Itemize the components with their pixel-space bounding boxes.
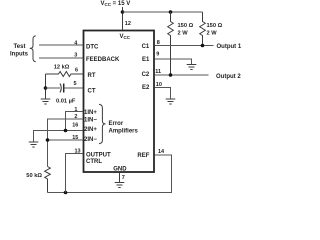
svg-text:E1: E1: [142, 57, 150, 63]
junction dot pin13 to REF wire: [64, 191, 68, 195]
svg-text:150 Ω: 150 Ω: [178, 23, 194, 29]
junction dot pin1 to pin16: [64, 129, 68, 133]
wire pin 11 C2 output 2: [155, 74, 209, 76]
svg-text:Inputs: Inputs: [10, 51, 29, 57]
svg-text:2IN+: 2IN+: [84, 127, 97, 133]
svg-text:REF: REF: [137, 153, 149, 159]
junction dot R1 bottom: [169, 73, 173, 77]
capacitor CT 0.01uF straight plate: [63, 84, 65, 93]
resistor R1 150 ohm 2W: [168, 12, 174, 75]
svg-text:2IN−: 2IN−: [84, 137, 97, 143]
svg-text:7: 7: [122, 175, 125, 181]
svg-text:2 W: 2 W: [178, 31, 189, 37]
wire pin 8 C1 output 1: [155, 45, 214, 47]
resistor R3 50k: [45, 167, 51, 193]
svg-text:DTC: DTC: [86, 45, 99, 51]
svg-text:OUTPUT: OUTPUT: [86, 152, 111, 158]
svg-text:5: 5: [74, 81, 77, 87]
junction dot pin2 to pin15: [46, 138, 50, 142]
svg-text:0.01 µF: 0.01 µF: [56, 99, 76, 105]
junction dot CT node: [44, 86, 48, 90]
svg-text:10: 10: [156, 82, 162, 88]
ground E1: [187, 65, 197, 70]
brace error amplifiers: [99, 104, 106, 143]
svg-text:VCC = 15 V: VCC = 15 V: [101, 1, 131, 7]
wire top rail: [123, 11, 203, 13]
svg-text:RT: RT: [88, 73, 96, 79]
wire pin 13 OUTPUT CTRL: [66, 154, 83, 193]
svg-text:VCC: VCC: [120, 34, 131, 40]
brace test inputs: [30, 36, 36, 62]
svg-text:14: 14: [158, 149, 165, 155]
svg-text:CTRL: CTRL: [86, 159, 102, 165]
svg-text:GND: GND: [113, 167, 127, 173]
wire cap to pin 5: [64, 87, 83, 89]
ground pin 7: [115, 183, 125, 188]
svg-text:Output 1: Output 1: [217, 44, 242, 50]
junction dot R2 bottom: [201, 44, 205, 48]
wire pin 7 GND: [119, 173, 121, 183]
svg-text:Error: Error: [109, 121, 124, 127]
ground E2: [166, 99, 176, 104]
svg-text:150 Ω: 150 Ω: [207, 23, 223, 29]
resistor R2 150 ohm 2W: [200, 12, 206, 46]
junction dot VCC rail: [121, 10, 125, 14]
svg-text:9: 9: [156, 52, 159, 58]
svg-text:E2: E2: [142, 85, 150, 91]
wire pin 3 FEEDBACK: [39, 57, 83, 59]
wire RT to CT junction: [45, 74, 47, 99]
junction dot R1 top: [169, 10, 173, 14]
capacitor CT 0.01uF curved plate: [60, 84, 61, 93]
wire pin 1 1IN+: [66, 112, 83, 131]
svg-text:1IN−: 1IN−: [84, 118, 97, 124]
wire pin 4 DTC: [39, 44, 83, 46]
svg-text:6: 6: [75, 68, 78, 74]
wire pin 5 CT: [46, 87, 61, 89]
wire VCC vertical to pin 12: [122, 7, 124, 30]
IC U1 TL494 outline: [84, 31, 155, 173]
svg-text:8: 8: [157, 40, 160, 46]
svg-text:CT: CT: [88, 89, 96, 95]
svg-text:1: 1: [74, 107, 77, 113]
svg-text:50 kΩ: 50 kΩ: [26, 173, 42, 179]
svg-text:11: 11: [155, 69, 161, 75]
svg-text:12: 12: [125, 21, 131, 27]
svg-text:C1: C1: [142, 44, 150, 50]
ground 2IN+: [29, 142, 39, 147]
svg-text:1IN+: 1IN+: [84, 110, 97, 116]
svg-text:2: 2: [74, 114, 77, 120]
svg-text:FEEDBACK: FEEDBACK: [86, 57, 120, 63]
svg-text:2 W: 2 W: [207, 31, 218, 37]
ground CT: [41, 99, 51, 104]
svg-text:Output 2: Output 2: [216, 74, 241, 80]
wire pin 2 1IN-: [48, 119, 83, 167]
svg-text:C2: C2: [142, 72, 150, 78]
svg-text:13: 13: [75, 149, 81, 155]
svg-text:15: 15: [72, 135, 78, 141]
wire pin 10 E2: [155, 88, 171, 99]
svg-text:Amplifiers: Amplifiers: [109, 129, 139, 135]
wire pin 9 E1: [155, 59, 192, 64]
svg-text:16: 16: [72, 122, 78, 128]
resistor RT 12k: [46, 72, 83, 77]
wire pin 15 2IN-: [48, 139, 83, 141]
svg-text:Test: Test: [14, 44, 26, 50]
svg-text:3: 3: [74, 53, 77, 59]
wire pin 14 REF loop: [48, 155, 172, 193]
svg-text:12 kΩ: 12 kΩ: [54, 64, 70, 70]
wire pin 16 2IN+: [34, 131, 83, 142]
